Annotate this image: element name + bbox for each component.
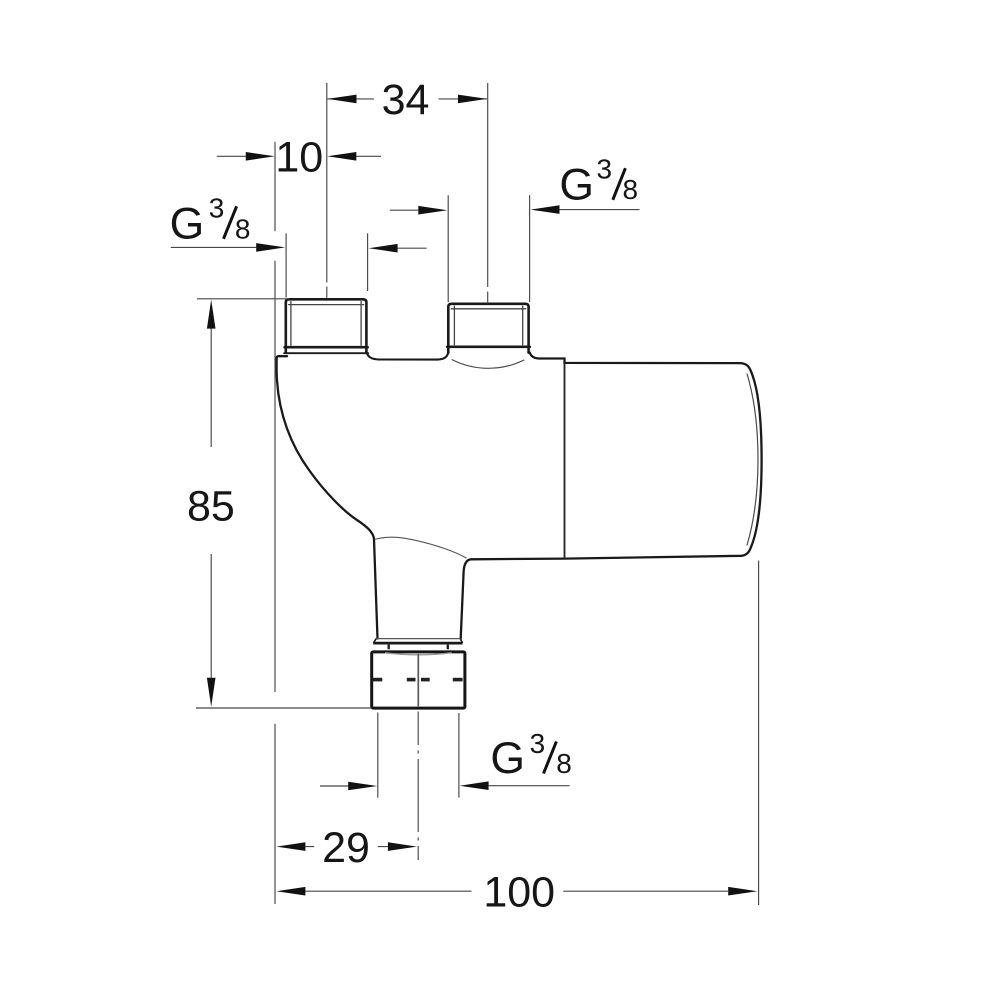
outlet nut (372, 652, 465, 708)
svg-text:3: 3 (530, 728, 546, 759)
svg-text:8: 8 (556, 748, 572, 779)
nut centre dash marks (373, 678, 463, 682)
svg-text:G: G (559, 160, 594, 209)
svg-text:34: 34 (382, 76, 430, 124)
svg-text:10: 10 (275, 134, 323, 182)
right G3/8 label (390, 195, 640, 302)
dimension 10 (217, 142, 381, 232)
cartridge joint line (564, 363, 566, 559)
bottom G3/8 label (320, 713, 570, 798)
svg-text:85: 85 (187, 482, 235, 530)
svg-text:8: 8 (235, 214, 251, 245)
svg-text:G: G (170, 200, 205, 249)
left G3/8 label (171, 233, 427, 297)
svg-text:3: 3 (597, 153, 613, 184)
svg-text:29: 29 (322, 824, 370, 872)
cap end inner arc (747, 374, 758, 546)
svg-text:G: G (490, 734, 525, 783)
fitting 2 (right inlet) (447, 304, 530, 353)
left long extension line (274, 261, 276, 904)
dimension 85 (196, 299, 372, 708)
svg-text:3: 3 (209, 193, 225, 224)
dimension 100 (305, 561, 758, 906)
boss saddle arc under fitting 2 (452, 360, 525, 369)
valve body outline (277, 353, 762, 639)
fitting 2 centreline (487, 83, 489, 303)
svg-text:100: 100 (483, 869, 555, 917)
outlet flange (373, 639, 462, 650)
dimension 34 (328, 98, 488, 100)
fitting 1 centreline (326, 83, 328, 298)
dimension 29 (305, 846, 388, 848)
fitting 1 (left inlet) (284, 299, 368, 353)
svg-text:8: 8 (623, 174, 639, 205)
body-outlet transition curve (375, 537, 467, 558)
outlet centreline (417, 712, 419, 861)
